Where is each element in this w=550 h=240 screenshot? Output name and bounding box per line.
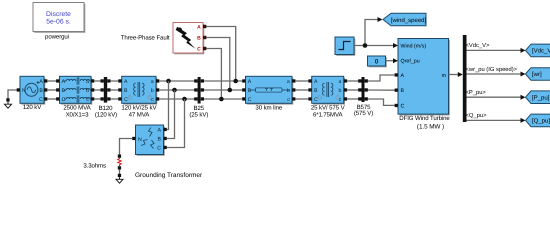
svg-text:N: N	[22, 88, 26, 94]
label 3.3ohms	[83, 163, 106, 170]
transformer 2500 MVA X0/X1=3	[56, 76, 94, 104]
svg-text:<Q_pu>: <Q_pu>	[466, 112, 488, 119]
wire step to wind input and goto tag	[354, 20, 395, 46]
svg-text:DFIG Wind Turbine: DFIG Wind Turbine	[399, 115, 450, 122]
svg-text:X0/X1=3: X0/X1=3	[66, 112, 90, 119]
svg-text:3.3ohms: 3.3ohms	[83, 163, 106, 170]
wire grounding transformer N to resistor	[120, 139, 133, 155]
svg-text:C: C	[314, 97, 318, 103]
svg-text:(575 V): (575 V)	[354, 110, 373, 117]
svg-text:Three-Phase Fault: Three-Phase Fault	[121, 34, 170, 41]
svg-text:A: A	[248, 79, 252, 85]
svg-text:b: b	[151, 88, 154, 94]
junction node phase B tap	[172, 88, 177, 93]
ground (grounding transformer)	[116, 174, 123, 183]
three-phase fault block	[173, 23, 206, 55]
svg-text:a: a	[86, 79, 89, 85]
bus B120	[101, 77, 111, 103]
wire signal Q_pu	[466, 112, 522, 120]
arrow into bus selector	[458, 72, 463, 77]
DFIG wind turbine block	[393, 39, 450, 116]
arrow into tag Vdc_V	[521, 48, 526, 53]
label Grounding Transformer	[135, 172, 203, 179]
arrow into tag P_pu	[521, 95, 526, 100]
svg-text:A: A	[197, 25, 201, 31]
svg-text:A: A	[401, 73, 405, 79]
arrow into wind_speed tag	[378, 17, 383, 22]
svg-text:2500 MVA: 2500 MVA	[63, 105, 91, 112]
wire signal P_pu	[466, 90, 522, 97]
svg-text:c: c	[287, 97, 290, 103]
svg-text:<wr_pu (IG speed)>: <wr_pu (IG speed)>	[466, 66, 518, 73]
wire m output to bus selector	[449, 74, 459, 76]
svg-text:(25 kV): (25 kV)	[189, 112, 208, 119]
svg-text:A: A	[158, 128, 162, 134]
svg-text:6*1.75MVA: 6*1.75MVA	[313, 112, 344, 119]
svg-text:Wind (m/s): Wind (m/s)	[401, 43, 427, 49]
svg-text:Qref_pu: Qref_pu	[401, 59, 420, 65]
label 30 km line	[255, 105, 282, 112]
junction fault phase C	[219, 97, 224, 102]
svg-text:b: b	[86, 88, 89, 94]
svg-text:C: C	[62, 97, 66, 103]
junction wind signal	[363, 43, 368, 48]
svg-text:(1.5 MW ): (1.5 MW )	[417, 124, 444, 131]
svg-text:B: B	[124, 88, 128, 94]
wires transformer to bus B575	[347, 81, 360, 99]
svg-text:b: b	[287, 88, 290, 94]
label B120 (120 kV)	[95, 105, 117, 119]
junction fault phase B	[228, 88, 233, 93]
wire signal Vdc_V	[466, 42, 522, 50]
label B575 (575 V)	[354, 104, 373, 117]
svg-text:120 kV/25 kV: 120 kV/25 kV	[121, 105, 157, 112]
powergui block (Discrete 5e-06 s)	[33, 3, 85, 33]
svg-text:C: C	[124, 97, 128, 103]
wire source N to ground	[8, 90, 20, 99]
svg-text:A: A	[314, 79, 318, 85]
wires transformer to bus B120	[94, 81, 104, 99]
svg-text:powergui: powergui	[45, 34, 69, 41]
resistor 3.3 ohms	[118, 155, 122, 170]
transformer 120 kV/25 kV 47 MVA	[118, 76, 159, 104]
svg-text:25 kV/ 575 V: 25 kV/ 575 V	[311, 105, 346, 112]
wire signal wr_pu	[466, 66, 522, 74]
svg-text:C: C	[401, 103, 405, 109]
svg-text:C: C	[157, 146, 161, 152]
wires bus B120 to 47 MVA transformer	[111, 81, 120, 99]
svg-text:C: C	[248, 97, 252, 103]
svg-text:a: a	[287, 79, 290, 85]
svg-text:[P_pu]: [P_pu]	[532, 94, 550, 101]
wires bus B575 to DFIG terminals	[368, 75, 395, 105]
svg-text:[Vdc_V]: [Vdc_V]	[532, 48, 550, 55]
arrow into tag Q_pu	[521, 118, 526, 123]
label Three-Phase Fault	[121, 34, 170, 41]
junction node phase A tap	[166, 79, 171, 84]
svg-text:0: 0	[375, 59, 379, 66]
wind speed step source	[335, 37, 355, 56]
wires taps down to grounding transformer	[167, 81, 185, 148]
constant 0 (Qref)	[368, 56, 387, 67]
wires 30 km line to 6*1.75 MVA transformer	[295, 81, 310, 99]
bus B575	[358, 77, 368, 102]
svg-text:c: c	[151, 97, 154, 103]
svg-text:5e-06 s.: 5e-06 s.	[46, 19, 71, 26]
svg-text:B: B	[197, 36, 201, 42]
junction node phase C tap	[182, 97, 187, 102]
svg-text:A: A	[39, 79, 43, 85]
svg-text:47 MVA: 47 MVA	[129, 112, 151, 119]
wire resistor to ground	[119, 170, 121, 175]
grounding transformer block	[132, 125, 167, 156]
three-phase voltage source 120 kV	[17, 76, 48, 104]
bus selector (demux bar)	[463, 35, 467, 122]
label 2500 MVA X0/X1=3	[63, 105, 91, 119]
svg-text:B: B	[39, 88, 43, 94]
svg-text:[Q_pu]: [Q_pu]	[532, 118, 550, 125]
wires bus B25 to 30 km line	[204, 81, 244, 99]
svg-text:C: C	[197, 47, 201, 53]
label DFIG Wind Turbine (1.5 MW)	[399, 115, 450, 131]
svg-text:B: B	[62, 88, 66, 94]
svg-text:m: m	[442, 73, 447, 79]
svg-text:a: a	[339, 79, 342, 85]
svg-text:Discrete: Discrete	[46, 11, 71, 18]
wires 47 MVA transformer to bus B25	[159, 81, 196, 99]
30 km distributed line block	[242, 76, 295, 104]
label powergui	[45, 34, 69, 41]
goto tag [Vdc_V]	[526, 44, 550, 57]
wire 0 to Qref_pu	[386, 60, 395, 62]
svg-text:Grounding Transformer: Grounding Transformer	[135, 172, 203, 179]
svg-text:<Vdc_V>: <Vdc_V>	[466, 42, 490, 49]
svg-text:B: B	[158, 137, 162, 143]
bus B25	[194, 77, 204, 104]
svg-text:30 km line: 30 km line	[255, 105, 282, 112]
svg-text:A: A	[124, 79, 128, 85]
junction fault phase A	[233, 79, 238, 84]
svg-text:B: B	[314, 88, 318, 94]
transformer 25 kV/575 V 6*1.75 MVA	[308, 76, 347, 104]
svg-text:C: C	[39, 97, 43, 103]
svg-text:120 kV: 120 kV	[23, 104, 42, 111]
svg-text:(120 kV): (120 kV)	[95, 112, 117, 119]
svg-text:c: c	[339, 97, 342, 103]
svg-text:[wind_speed]: [wind_speed]	[391, 17, 427, 24]
wires fault A/B/C to line taps	[206, 27, 235, 100]
wires source to 2500 MVA transformer	[47, 81, 58, 99]
svg-text:B: B	[248, 88, 252, 94]
svg-text:N: N	[138, 137, 142, 143]
goto tag [wr]	[526, 68, 550, 81]
svg-text:b: b	[339, 88, 342, 94]
goto tag [P_pu]	[526, 91, 550, 104]
arrow into tag wr_pu	[521, 72, 526, 77]
label 25 kV/ 575 V 6*1.75MVA	[311, 105, 346, 119]
label 120 kV	[23, 104, 42, 111]
svg-text:<P_pu>: <P_pu>	[466, 90, 487, 96]
goto tag [wind_speed]	[383, 13, 427, 26]
goto tag [Q_pu]	[526, 114, 550, 127]
svg-text:[wr]: [wr]	[532, 71, 542, 78]
label 120 kV/25 kV 47 MVA	[121, 105, 157, 119]
svg-text:a: a	[151, 79, 154, 85]
label B25 (25 kV)	[189, 105, 208, 119]
ground (source neutral)	[4, 98, 11, 108]
svg-text:B: B	[401, 88, 405, 94]
svg-text:A: A	[62, 79, 66, 85]
svg-text:c: c	[86, 97, 89, 103]
